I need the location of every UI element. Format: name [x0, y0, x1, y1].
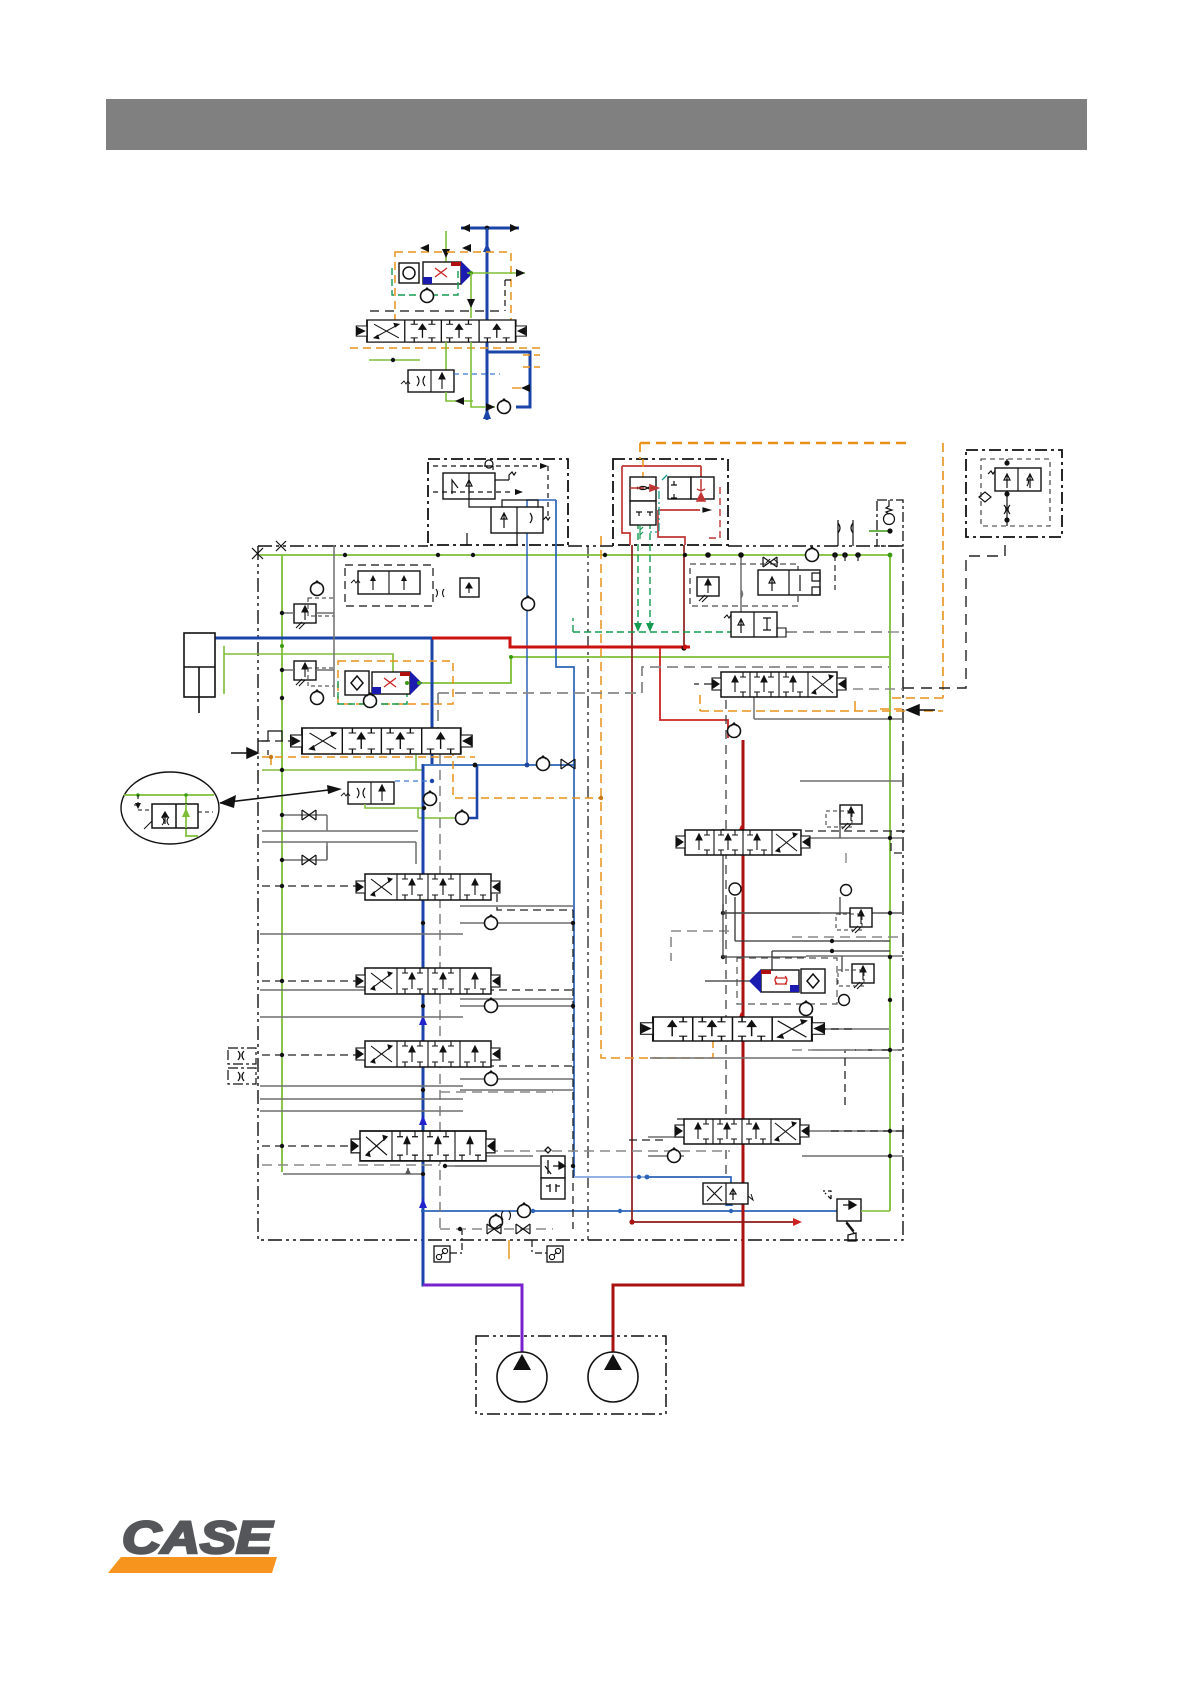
svg-text:CASE: CASE	[122, 1512, 274, 1563]
